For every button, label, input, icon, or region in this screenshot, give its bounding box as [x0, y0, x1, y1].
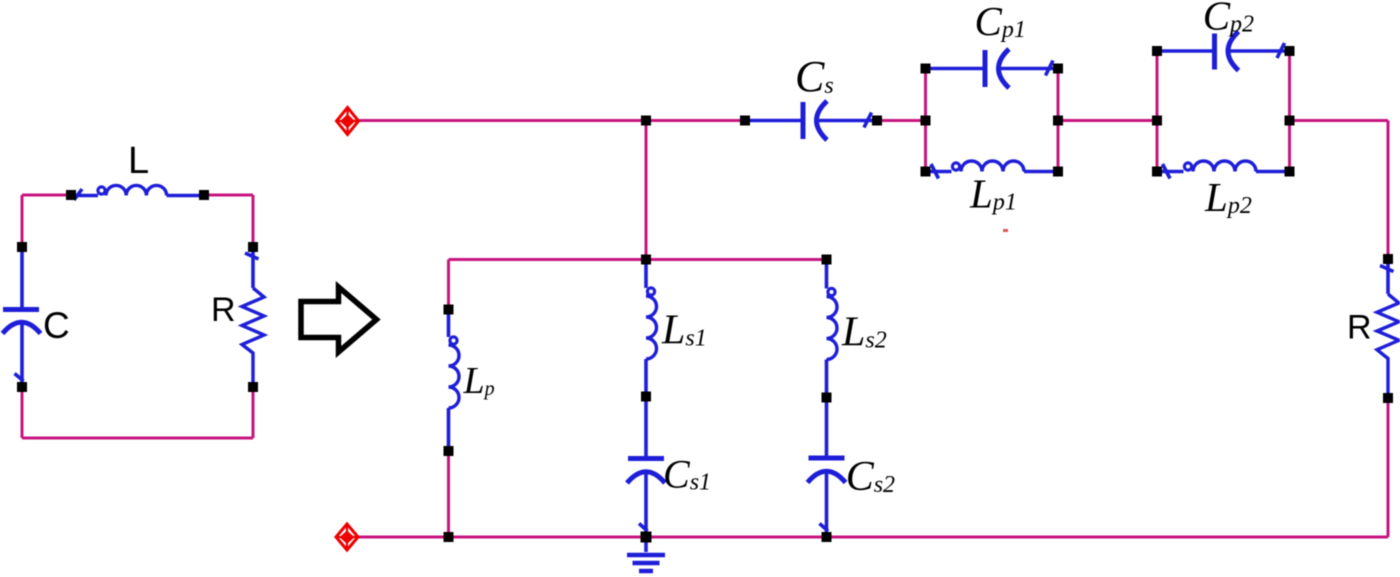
- svg-text:R: R: [211, 291, 236, 329]
- svg-text:R: R: [1347, 309, 1372, 347]
- svg-text:L: L: [128, 140, 149, 182]
- svg-text:C: C: [43, 305, 70, 346]
